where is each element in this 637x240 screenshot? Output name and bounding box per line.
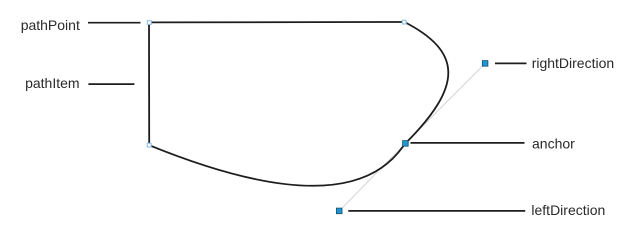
svg-text:pathPoint: pathPoint — [21, 17, 80, 33]
path point marker (top-right corner, hollow square) — [402, 20, 406, 24]
direction handle line through anchor (leftDirection to rightDirection) — [339, 63, 485, 211]
leader line: leftDirection — [348, 210, 525, 212]
leader line: anchor — [411, 142, 525, 144]
leader line: pathItem — [88, 83, 134, 85]
path point marker (bottom-left corner, hollow square) — [147, 143, 151, 147]
leader line: rightDirection — [495, 62, 527, 64]
svg-text:pathItem: pathItem — [25, 75, 79, 91]
anchor point marker (filled blue square) — [403, 141, 409, 147]
leader line: pathPoint — [88, 22, 141, 24]
rightDirection handle point marker (filled blue square) — [482, 61, 488, 67]
svg-text:leftDirection: leftDirection — [531, 202, 605, 218]
svg-text:rightDirection: rightDirection — [532, 55, 614, 71]
pathItem outline (closed path: two corner points, one smooth anchor) — [149, 22, 448, 186]
path point marker (top-left corner, hollow square) — [147, 21, 151, 25]
leftDirection handle point marker (filled blue square) — [336, 208, 342, 214]
svg-text:anchor: anchor — [532, 136, 575, 152]
